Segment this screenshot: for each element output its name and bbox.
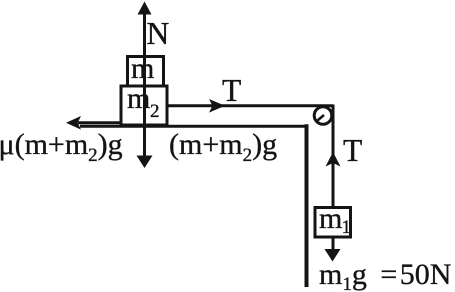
wire: vertical normal/weight axis through blocks bbox=[143, 10, 146, 157]
table edge vertical bbox=[305, 124, 309, 287]
arrowhead: tension T up on vertical rope bbox=[326, 152, 341, 167]
table line (surface) bbox=[80, 125, 308, 128]
wire: rope horizontal from m2 to pulley bbox=[166, 104, 333, 107]
svg-text:μ(m+m2)g: μ(m+m2)g bbox=[0, 128, 123, 166]
svg-text:(m+m2)g: (m+m2)g bbox=[169, 128, 277, 166]
arrowhead: tension T on horizontal rope bbox=[209, 99, 225, 113]
svg-text:1: 1 bbox=[342, 217, 352, 238]
svg-text:m: m bbox=[319, 202, 342, 235]
wire: rope vertical from pulley down to m1 bbox=[332, 105, 335, 253]
svg-text:N: N bbox=[147, 16, 170, 51]
pulley axle mark bbox=[318, 115, 325, 121]
block m2 bbox=[121, 86, 167, 125]
svg-text:m: m bbox=[131, 52, 154, 85]
svg-text:T: T bbox=[222, 73, 241, 108]
block m bbox=[128, 57, 164, 87]
svg-text:m1g = 50N: m1g = 50N bbox=[319, 258, 451, 292]
wire: friction arrow shaft bbox=[78, 121, 121, 124]
block m1 bbox=[315, 208, 351, 238]
svg-text:2: 2 bbox=[150, 101, 160, 122]
svg-text:T: T bbox=[343, 133, 362, 168]
arrowhead: m1g down arrow bbox=[325, 249, 341, 262]
arrowhead: weight (m+m2)g down arrow bbox=[137, 156, 153, 169]
pulley bbox=[314, 107, 332, 125]
arrowhead: N up arrow bbox=[138, 2, 152, 15]
arrowhead: friction left arrow bbox=[66, 116, 81, 130]
